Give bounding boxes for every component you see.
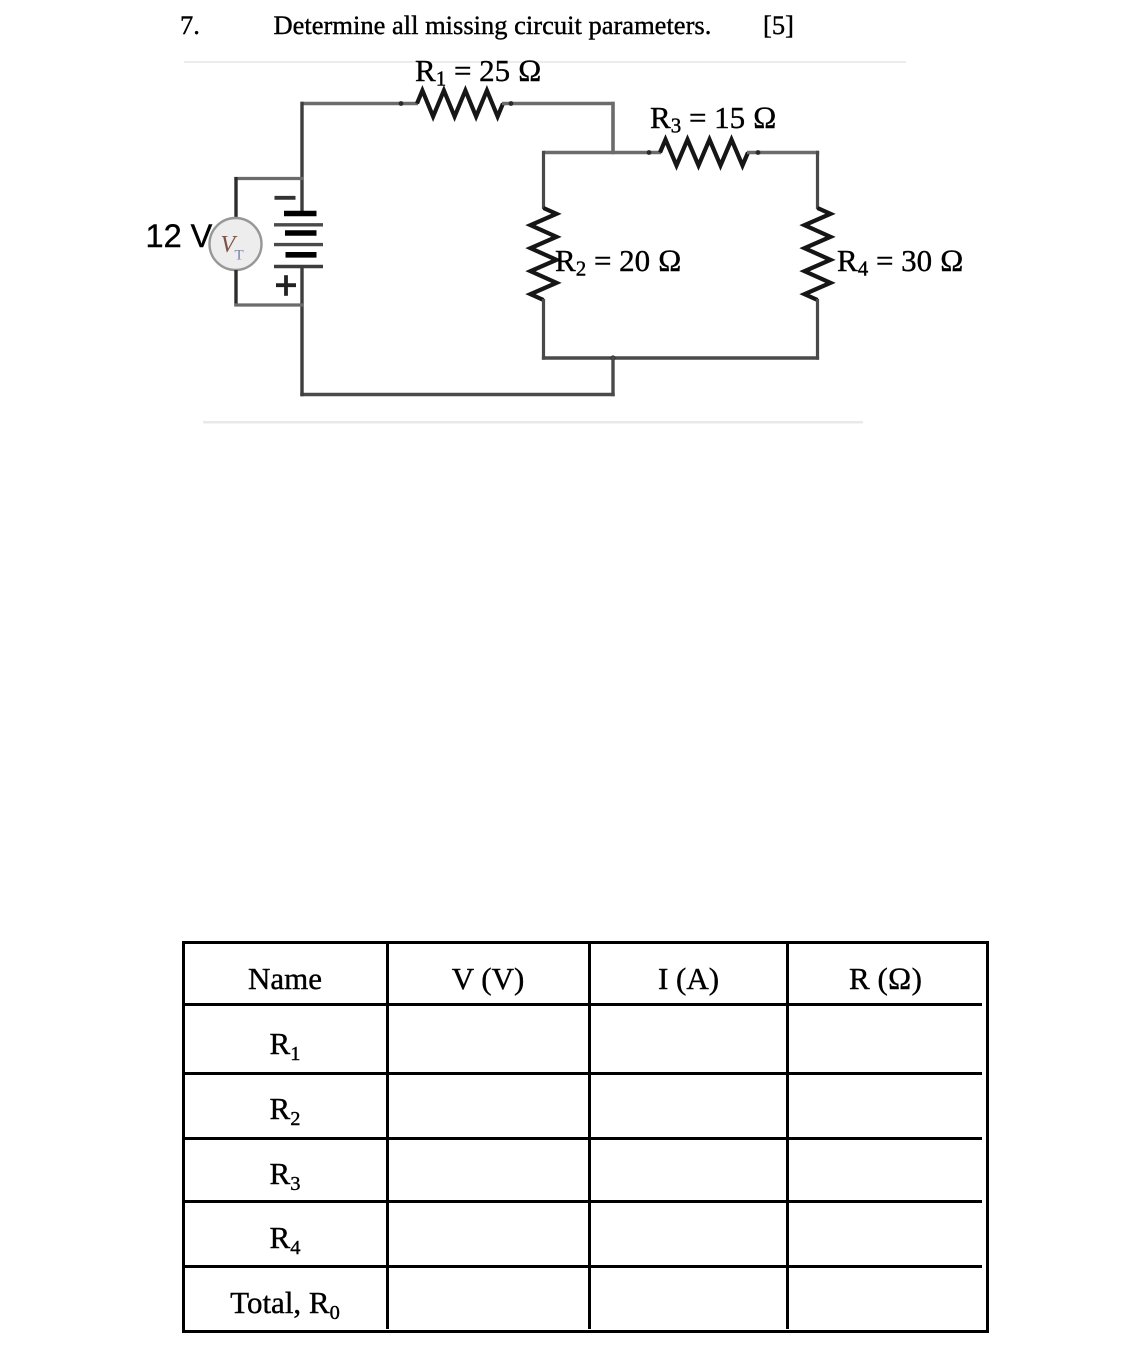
- svg-text:12 V: 12 V: [146, 218, 213, 254]
- battery B1 plate 3 (short): [285, 230, 317, 236]
- node: R3 right lead dot: [756, 150, 761, 155]
- polarity mark minus: [275, 196, 296, 200]
- table header V (V): [388, 961, 588, 997]
- wire: voltmeter bottom lead: [234, 270, 237, 307]
- svg-text:R2 = 20 Ω: R2 = 20 Ω: [555, 243, 682, 281]
- resistor R4: [805, 208, 831, 300]
- wire: R4 branch bottom: [816, 299, 819, 360]
- battery B1 plate 4 (long): [274, 243, 323, 246]
- title: problem number: [180, 10, 200, 41]
- resistor R2: [531, 208, 557, 300]
- wire: vertical from top loop to R3 row: [611, 102, 615, 154]
- table row label R3: [184, 1156, 386, 1192]
- svg-text:T: T: [235, 248, 244, 264]
- node: R1 left lead dot: [399, 101, 404, 106]
- table row line 4: [184, 1200, 982, 1203]
- title: mark value: [763, 10, 794, 41]
- wire: R3 row left segment: [544, 151, 662, 155]
- table row line 1: [184, 1003, 982, 1006]
- wire: voltmeter loop bottom: [234, 303, 303, 306]
- table row line 3: [184, 1137, 982, 1140]
- wire: inner bottom rail: [542, 356, 819, 359]
- wire: R3 row right segment: [747, 151, 819, 155]
- wire: top loop right segment: [502, 102, 615, 106]
- node: junction inner bottom rail: [610, 355, 615, 360]
- table row label R4: [184, 1220, 386, 1256]
- svg-text:R1 = 25 Ω: R1 = 25 Ω: [415, 53, 542, 91]
- wire: outer bottom rail: [300, 393, 614, 396]
- wire: left vertical lower (battery bottom to bottom rail): [300, 267, 303, 397]
- table header Name: [184, 961, 386, 997]
- wire: R2 branch bottom: [542, 299, 545, 360]
- table column line 1: [386, 943, 389, 1329]
- battery B1 plate 1 (short): [284, 211, 317, 217]
- wire: voltmeter loop top: [234, 177, 303, 180]
- table header R (ohm): [789, 961, 982, 997]
- svg-text:R4 = 30 Ω: R4 = 30 Ω: [837, 243, 964, 281]
- wire: top loop left segment: [301, 102, 419, 106]
- battery B1 plate 6 (long): [274, 265, 323, 269]
- svg-text:R3 = 15 Ω: R3 = 15 Ω: [650, 100, 777, 138]
- resistor R1: [417, 91, 503, 117]
- figure bottom edge: [203, 421, 863, 424]
- wire: left vertical upper (source to top loop): [300, 102, 303, 211]
- table row line 5: [184, 1265, 982, 1268]
- node: R3 left lead dot: [647, 150, 652, 155]
- table column line 3: [786, 943, 789, 1329]
- figure top edge: [184, 61, 906, 63]
- node: R1 right lead dot: [509, 101, 514, 106]
- table row label Total, R0: [184, 1285, 386, 1321]
- table row line 2: [184, 1072, 982, 1075]
- table column line 2: [588, 943, 591, 1329]
- wire: junction vertical to outer bottom rail: [611, 356, 614, 396]
- table header I (A): [591, 961, 786, 997]
- battery B1 plate 2 (long): [274, 223, 323, 226]
- battery B1 plate 5 (short): [286, 252, 317, 258]
- wire: R4 branch top: [816, 151, 819, 209]
- table row label R2: [184, 1091, 386, 1127]
- voltmeter VT circle: [210, 218, 262, 270]
- title: problem statement: [274, 10, 712, 41]
- table row label R1: [184, 1026, 386, 1062]
- polarity mark plus: [276, 275, 296, 296]
- wire: R2 branch top: [542, 151, 545, 209]
- parameter table outer border: [182, 941, 989, 1333]
- resistor R3: [660, 140, 748, 166]
- wire: voltmeter top lead: [234, 177, 237, 218]
